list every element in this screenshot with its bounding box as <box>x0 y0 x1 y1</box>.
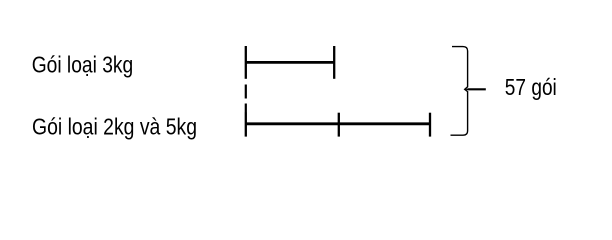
bar B line (2kg and 5kg row) <box>245 122 430 125</box>
bar B left tick <box>245 113 247 137</box>
bar B middle tick <box>338 113 340 137</box>
brace <box>451 47 468 136</box>
leader line to total <box>465 88 486 90</box>
svg-text:Gói loại 3kg: Gói loại 3kg <box>32 52 134 78</box>
dashed connector segment 2 <box>245 104 247 114</box>
dashed connector segment 1 <box>245 85 247 99</box>
svg-text:57 gói: 57 gói <box>505 74 557 100</box>
bar B right tick <box>429 113 431 137</box>
bar A left tick <box>245 46 247 79</box>
bar A line (3kg row) <box>245 61 335 64</box>
svg-text:Gói loại 2kg và 5kg: Gói loại 2kg và 5kg <box>32 113 197 139</box>
bar A right tick <box>333 46 335 79</box>
